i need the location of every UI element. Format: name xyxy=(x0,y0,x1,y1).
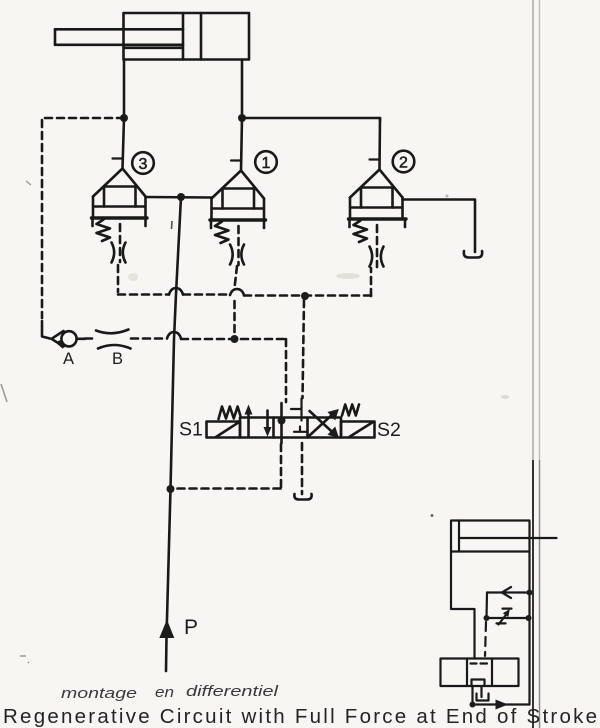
inset: bottom wire with flow arrow xyxy=(473,700,530,710)
valve 3 pilot dash below xyxy=(117,265,120,292)
DCV box divider left xyxy=(272,418,275,438)
svg-text:montage: montage xyxy=(61,685,137,702)
valve 1 inner sleeve xyxy=(223,189,255,209)
wire node N2 to valve 2 stem xyxy=(242,118,380,121)
wire cylinder rod-end port down to node N2 xyxy=(241,60,244,119)
spring right xyxy=(342,405,359,416)
valve 3 pilot dash inside xyxy=(119,224,122,262)
page fold line (right, faint) xyxy=(539,0,541,460)
directional control valve DCV xyxy=(207,399,375,439)
page fold line (left, dark below) xyxy=(532,460,534,728)
valve 2 body bottom bar xyxy=(349,217,407,220)
solenoid S1 box xyxy=(207,422,241,438)
valve 1 bottom bar end ticks xyxy=(211,221,264,228)
node A-B bus to valve1 pilot xyxy=(231,335,239,343)
page fold line (left, faint above) xyxy=(532,0,534,460)
node N1 xyxy=(120,114,128,122)
valve 3 seat tick xyxy=(113,157,123,159)
cartridge valve 1 xyxy=(210,161,266,266)
faint smudge marks xyxy=(336,273,360,279)
wire valve1 stem xyxy=(241,118,242,171)
cartridge valve 2 xyxy=(349,160,407,268)
valve 3 spring xyxy=(97,220,111,242)
solenoid S2 diagonal xyxy=(350,422,373,437)
svg-text:3: 3 xyxy=(139,156,148,173)
pilot dashed line A-B bus y=338.5 xyxy=(85,332,286,402)
wire elbow into check valve A xyxy=(42,321,50,339)
valve 1 body xyxy=(212,199,265,221)
stray mark left margin xyxy=(26,181,31,185)
DCV centre blocked port T xyxy=(294,427,307,432)
label 2 xyxy=(393,151,415,173)
wire valve3 right port to valve1 left port xyxy=(146,196,212,199)
svg-text:S2: S2 xyxy=(377,419,401,441)
svg-text:S1: S1 xyxy=(179,419,203,441)
stray mark left edge xyxy=(1,384,7,402)
DCV box divider right xyxy=(306,418,309,438)
svg-text:P: P xyxy=(184,616,198,639)
stray speck xyxy=(431,514,434,517)
page fold line (right, lower) xyxy=(539,460,541,728)
svg-text:2: 2 xyxy=(399,155,408,172)
stray speck2 xyxy=(20,656,29,663)
DCV tank port dashed with drain xyxy=(294,443,311,500)
inset: cylinder xyxy=(451,521,557,552)
wire valve2 stem xyxy=(378,118,381,170)
solenoid S1 diagonal xyxy=(216,422,240,437)
wire cylinder cap-end down to node N1 xyxy=(123,60,126,119)
label 1 xyxy=(255,151,277,173)
valve 2 body xyxy=(350,198,403,220)
pilot dashed from valve1 orifice down to node xyxy=(235,266,238,336)
valve 3 orifice xyxy=(112,243,126,263)
inset: valve drain tank xyxy=(477,686,489,701)
node pump-to-valve junction xyxy=(167,485,175,493)
orifice B xyxy=(96,330,131,349)
svg-text:en: en xyxy=(155,684,174,701)
valve 2 inner sleeve xyxy=(361,188,393,208)
inset: check valve branch xyxy=(487,587,533,598)
valve 1 spring xyxy=(215,222,229,244)
DCV position-3 crossed arrows xyxy=(310,411,336,435)
inset: flow control branch xyxy=(484,609,532,625)
DCV centre passage L xyxy=(291,399,302,421)
DCV position-1 up arrow xyxy=(247,413,250,437)
valve 1 orifice xyxy=(230,245,244,265)
svg-text:A: A xyxy=(63,350,74,368)
valve 2 right port to tank xyxy=(403,200,483,258)
svg-text:differentiel: differentiel xyxy=(186,683,279,700)
pilot line through DCV port A xyxy=(175,403,286,489)
valve 3 body bottom bar xyxy=(92,216,148,219)
inset: valve body xyxy=(441,659,519,687)
valve 2 spring xyxy=(354,221,368,243)
valve 2 poppet funnel xyxy=(350,170,403,198)
spring left xyxy=(219,407,241,420)
valve 3 body xyxy=(93,197,146,219)
svg-text:Regenerative Circuit with Full: Regenerative Circuit with Full Force at … xyxy=(3,705,597,728)
cylinder rod xyxy=(55,29,183,48)
inset: branch connector xyxy=(485,593,488,619)
svg-text:1: 1 xyxy=(262,155,271,172)
pump supply line P xyxy=(166,197,181,671)
pilot dashed line from node N1 to check valve A xyxy=(42,118,124,318)
valve 1 seat tick xyxy=(231,159,241,161)
valve 1 pilot dash inside xyxy=(237,226,240,265)
valve 3 bottom bar end ticks xyxy=(93,219,146,226)
pilot dashed from bus node down to DCV xyxy=(303,300,305,398)
valve 3 inner sleeve xyxy=(104,187,136,207)
wire valve3 stem xyxy=(123,118,125,169)
cartridge valve 3 xyxy=(92,159,148,293)
svg-text:B: B xyxy=(112,350,123,368)
label 3 xyxy=(132,152,154,174)
inset: pilot dashes to valve xyxy=(485,622,486,656)
faint pilot dash fleck xyxy=(171,221,174,229)
solenoid S2 box xyxy=(341,422,375,438)
valve 1 poppet funnel xyxy=(212,171,265,199)
inset: node bottom left xyxy=(470,702,476,708)
valve 2 bottom bar end ticks xyxy=(350,220,406,227)
pump flow arrow xyxy=(159,620,174,639)
inset: wire cylinder cap side xyxy=(451,552,475,659)
DCV body xyxy=(240,418,341,438)
pilot dashed bus y=295 xyxy=(118,268,371,296)
cylinder piston (double line) xyxy=(183,13,201,60)
valve 1 body bottom bar xyxy=(210,218,266,221)
valve 3 poppet funnel xyxy=(93,169,146,197)
node on pilot bus xyxy=(301,292,309,300)
node N2 xyxy=(238,114,246,122)
node P-junction xyxy=(177,193,185,201)
cylinder body xyxy=(124,13,250,60)
inset: wire cylinder rod side xyxy=(528,552,530,705)
valve 2 orifice xyxy=(370,247,384,267)
valve 2 pilot dash inside xyxy=(376,225,379,267)
check valve A xyxy=(52,331,86,349)
DCV position-1 down arrow xyxy=(266,411,269,429)
inset: valve output to bottom bus xyxy=(471,686,473,705)
valve 2 seat tick xyxy=(370,158,380,160)
